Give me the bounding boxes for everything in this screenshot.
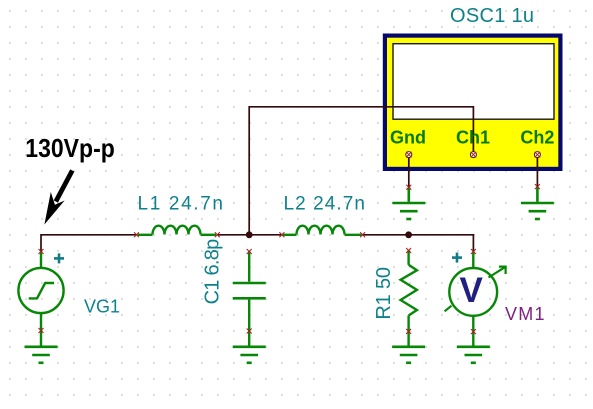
wire VG1 corner to L1 — [41, 235, 137, 252]
pin X at R1 top — [406, 248, 411, 253]
voltage generator VG1 — [18, 252, 63, 346]
pin X at L1 left — [134, 232, 139, 237]
svg-text:VM1: VM1 — [505, 304, 545, 324]
inductor L2 — [283, 226, 362, 235]
plus sign of VM1 — [452, 253, 462, 263]
resistor R1 — [401, 251, 417, 346]
pin X at L2 left — [279, 232, 284, 237]
ground below R1 — [392, 347, 425, 363]
wire node A to scope Ch1 — [249, 107, 473, 235]
wire L2 to node B — [363, 234, 409, 236]
wire scope Gnd to ground — [408, 157, 410, 187]
ground below scope Gnd — [392, 187, 425, 219]
svg-text:Ch1: Ch1 — [456, 128, 490, 148]
ground below VG1 — [25, 347, 58, 363]
pin X at C1 bottom — [247, 329, 252, 334]
ground below scope Ch2 — [521, 187, 554, 219]
svg-text:L1 24.7n: L1 24.7n — [138, 193, 224, 214]
pin X at scope Gnd wire — [406, 185, 411, 190]
pin X at L1 right — [215, 232, 220, 237]
ground below VM1 — [457, 347, 490, 363]
scope terminal Ch2 — [534, 152, 540, 158]
pin X at VM1 bottom — [471, 329, 476, 334]
svg-text:Ch2: Ch2 — [520, 128, 554, 148]
wire L1 to node A — [217, 234, 249, 236]
pin X at VG1 top — [39, 249, 44, 254]
pin X at scope Ch2 wire — [535, 184, 540, 189]
pin X at VM1 top — [471, 249, 476, 254]
voltmeter VM1 — [445, 252, 506, 346]
junction node A — [246, 231, 253, 238]
junction node B — [405, 231, 412, 238]
pin X at VG1 bottom — [39, 328, 44, 333]
scope terminal Ch1 — [470, 152, 476, 158]
annotation arrow — [44, 171, 72, 225]
svg-text:R1 50: R1 50 — [373, 267, 395, 320]
oscilloscope U1 OSC1 body — [383, 34, 563, 172]
svg-text:130Vp-p: 130Vp-p — [25, 133, 115, 163]
inductor L1 — [138, 226, 217, 235]
svg-text:C1 6.8p: C1 6.8p — [202, 239, 224, 305]
pin X at L2 right — [360, 232, 365, 237]
svg-text:VG1: VG1 — [84, 296, 120, 316]
pin X at R1 bottom — [406, 329, 411, 334]
wire node B to VM1 — [409, 235, 474, 252]
wire node A to L2 — [249, 234, 282, 236]
svg-text:L2 24.7n: L2 24.7n — [284, 193, 366, 214]
svg-text:Gnd: Gnd — [390, 128, 426, 148]
wire scope Ch2 to ground — [536, 157, 538, 187]
capacitor C1 — [233, 252, 266, 346]
plus sign of VG1 — [54, 253, 64, 263]
svg-text:OSC1 1u: OSC1 1u — [450, 5, 534, 27]
pin X marks — [39, 184, 540, 334]
pin X at C1 top — [247, 249, 252, 254]
ground below C1 — [233, 347, 266, 363]
svg-text:V: V — [460, 271, 484, 310]
scope terminal Gnd — [406, 152, 412, 158]
